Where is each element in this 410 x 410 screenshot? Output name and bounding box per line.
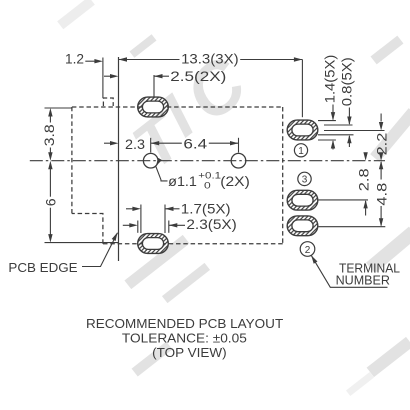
svg-text:1.7(5X): 1.7(5X) bbox=[181, 202, 231, 218]
pad terminal 2 bbox=[287, 216, 318, 236]
dim 6 bbox=[44, 161, 60, 243]
dim 2.2 bbox=[375, 114, 391, 161]
PCB edge line bbox=[118, 57, 120, 261]
svg-text:RECOMMENDED PCB LAYOUT: RECOMMENDED PCB LAYOUT bbox=[86, 317, 284, 331]
outline bottom edge bbox=[103, 243, 283, 245]
dim hole dia label bbox=[154, 158, 250, 192]
svg-text:NUMBER: NUMBER bbox=[336, 273, 390, 288]
svg-text:ø1.1: ø1.1 bbox=[168, 174, 197, 190]
svg-text:2.2: 2.2 bbox=[375, 133, 391, 156]
svg-text:TOLERANCE: ±0.05: TOLERANCE: ±0.05 bbox=[122, 331, 247, 345]
svg-text:1.4(5X): 1.4(5X) bbox=[322, 55, 338, 104]
svg-text:6.4: 6.4 bbox=[183, 137, 207, 153]
terminal circle 1 bbox=[294, 144, 307, 157]
terminal circle 2 bbox=[300, 242, 315, 257]
svg-text:6: 6 bbox=[44, 198, 60, 206]
terminal number label bbox=[309, 254, 400, 287]
dim 1.4(5X) bbox=[322, 55, 338, 150]
hole circle 2 bbox=[231, 153, 246, 168]
outline right edge bbox=[282, 107, 284, 244]
svg-text:4.8: 4.8 bbox=[375, 183, 391, 206]
dim 1.2 bbox=[65, 51, 103, 67]
svg-text:13.3(3X): 13.3(3X) bbox=[181, 51, 239, 67]
dim 3.8 bbox=[42, 108, 58, 161]
center line bbox=[30, 160, 385, 162]
component outline dashed bbox=[72, 98, 283, 244]
svg-text:3: 3 bbox=[302, 175, 308, 186]
svg-text:(TOP VIEW): (TOP VIEW) bbox=[152, 346, 227, 360]
svg-text:0.8(5X): 0.8(5X) bbox=[340, 57, 356, 106]
dim 2.3(5X) bbox=[123, 217, 237, 233]
pad bottom bbox=[138, 234, 169, 254]
dim 2.5(2X) bbox=[104, 69, 226, 85]
dim 1.7(5X) bbox=[126, 202, 231, 218]
dim 2.3 / 6.4 bbox=[104, 137, 239, 153]
dim 0.8(5X) bbox=[340, 57, 356, 147]
pcb edge label bbox=[8, 231, 119, 275]
svg-text:2.3(5X): 2.3(5X) bbox=[186, 217, 236, 233]
svg-text:1.2: 1.2 bbox=[65, 51, 84, 67]
svg-text:0: 0 bbox=[204, 180, 211, 191]
svg-text:2: 2 bbox=[305, 245, 311, 256]
pad top bbox=[138, 97, 169, 117]
pad terminal 1 bbox=[287, 120, 318, 140]
svg-text:2.3: 2.3 bbox=[125, 137, 145, 153]
dim 13.3(3X) bbox=[119, 51, 303, 67]
svg-text:2.5(2X): 2.5(2X) bbox=[170, 69, 226, 85]
terminal circle 3 bbox=[298, 172, 311, 185]
svg-text:1: 1 bbox=[298, 146, 304, 157]
extension lines bbox=[45, 58, 386, 243]
outline left lower edge bbox=[72, 214, 103, 244]
svg-text:(2X): (2X) bbox=[220, 174, 250, 190]
pad terminal 3 bbox=[287, 190, 318, 210]
svg-text:2.8: 2.8 bbox=[357, 168, 373, 191]
outline left edge bbox=[71, 107, 73, 214]
outline notch bbox=[103, 98, 113, 106]
hole circle 1 bbox=[143, 153, 158, 168]
title block bbox=[86, 317, 284, 360]
dim 2.8 bbox=[357, 152, 373, 215]
dim 4.8 bbox=[375, 161, 391, 227]
svg-text:PCB EDGE: PCB EDGE bbox=[8, 260, 77, 275]
outline top edge bbox=[72, 106, 283, 108]
svg-text:3.8: 3.8 bbox=[42, 124, 58, 146]
